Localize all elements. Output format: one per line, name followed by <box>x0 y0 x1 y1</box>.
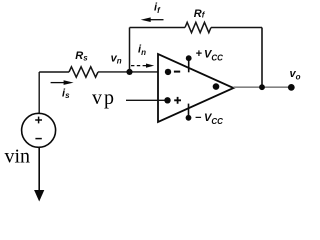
svg-text:−: − <box>195 112 202 124</box>
junction feedback/output <box>259 84 265 90</box>
op-amp U1 <box>158 54 234 122</box>
resistor Rf <box>185 22 211 32</box>
wire feedback right vertical <box>261 28 263 88</box>
wire Rs to inverting input <box>98 71 168 73</box>
terminal vo <box>288 84 295 91</box>
current arrow if <box>141 17 164 22</box>
svg-text:vp: vp <box>92 87 116 109</box>
-VCC supply <box>186 104 192 121</box>
voltage source vin <box>22 113 56 147</box>
wire feedback left vertical <box>129 28 131 72</box>
inverting input pin dot <box>165 69 171 75</box>
wire left vertical to source <box>38 72 40 114</box>
svg-text:+: + <box>196 48 203 60</box>
resistor Rs <box>69 67 98 77</box>
output pin dot <box>213 83 220 90</box>
current arrow is <box>51 80 74 85</box>
svg-text:vin: vin <box>5 146 31 168</box>
wire top horizontal right of Rf <box>211 27 262 29</box>
plus sign noninverting input <box>174 97 181 104</box>
wire output horizontal <box>234 86 292 88</box>
wire vp stub <box>126 99 168 101</box>
minus sign inverting input <box>174 71 180 73</box>
noninverting input pin dot <box>164 97 170 103</box>
current arrow in (dashed) <box>131 64 154 68</box>
ground arrow below source <box>34 147 44 201</box>
node vn <box>126 69 132 75</box>
wire top horizontal left of Rf <box>130 27 186 29</box>
wire main input left segment <box>39 71 69 73</box>
+VCC supply <box>186 55 192 72</box>
